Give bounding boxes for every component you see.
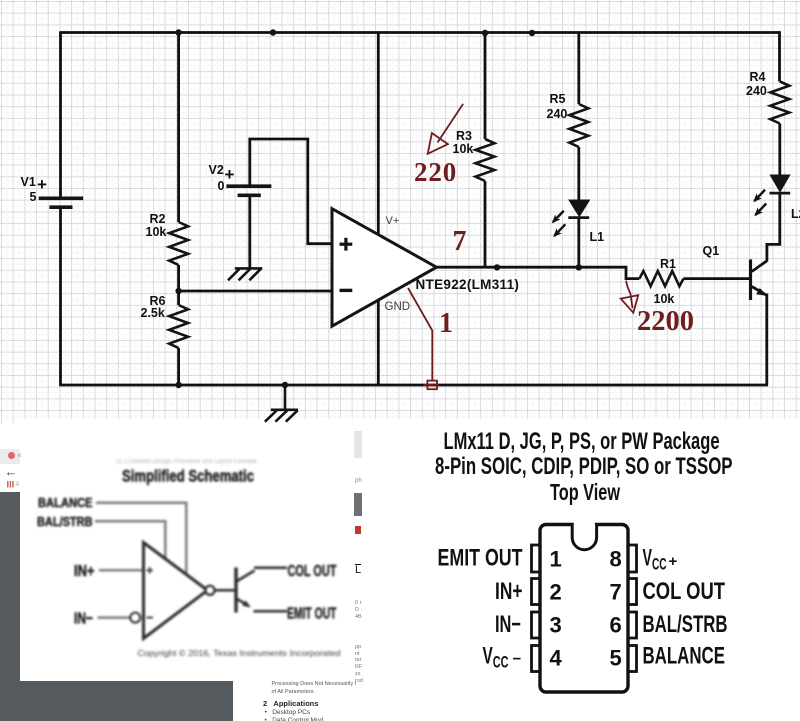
label V2 value 0 <box>218 180 225 193</box>
TI balance lead <box>96 503 186 574</box>
wire left rail upper <box>59 31 62 198</box>
svg-text:COL OUT: COL OUT <box>643 578 726 605</box>
tab favicon red circle <box>8 452 15 459</box>
TI in- bubble <box>130 613 140 623</box>
wire Q1 emitter to bottom rail <box>765 294 768 386</box>
label L1 <box>590 231 605 244</box>
node dot (top rail / R3) <box>482 30 488 36</box>
bottom tiny text processing <box>272 682 357 688</box>
scrollbar strip block 1 <box>354 431 362 458</box>
left datasheet window background <box>0 424 357 721</box>
op-amp U1 NTE922(LM311) <box>332 209 437 327</box>
label R2 value <box>146 226 167 239</box>
annotation arrow for 220 <box>428 104 463 154</box>
label V1 value 5 <box>30 191 37 204</box>
node dot (bottom rail / ground) <box>282 382 288 388</box>
annotation arrow for 2200 <box>621 281 639 313</box>
label L2 <box>791 208 800 221</box>
label R1 value <box>654 293 675 306</box>
TI plus input mark <box>147 567 154 574</box>
red apps icon <box>7 481 14 488</box>
svg-text:BAL/STRB: BAL/STRB <box>643 611 728 638</box>
node dot (top rail stray) <box>270 29 276 35</box>
svg-text:7: 7 <box>610 580 622 605</box>
ground (bottom) <box>265 410 298 422</box>
LED L2 light arrows <box>754 190 766 215</box>
scrollbar tiny text ph <box>355 478 362 484</box>
svg-text:VCC: VCC <box>483 643 509 672</box>
wire V2 plus to bend <box>250 139 332 244</box>
svg-text:IN+: IN+ <box>74 563 95 580</box>
annotation 220 <box>414 159 457 186</box>
annotation 7 <box>453 228 467 256</box>
annotation 1 <box>439 310 453 338</box>
wire R6 to bottom rail <box>177 348 180 385</box>
node dot (bottom rail / R6) <box>175 382 181 388</box>
label NTE922(LM311) <box>416 278 520 292</box>
battery V1 <box>39 198 83 207</box>
wire left rail lower <box>59 208 62 385</box>
strip tiny text column 2 <box>355 644 363 684</box>
label V1 plus sign <box>37 176 47 193</box>
pin stub 5 <box>627 646 637 672</box>
wire top rail <box>61 31 780 34</box>
svg-text:BALANCE: BALANCE <box>643 643 726 670</box>
TI transistor emitter with arrow <box>237 599 249 606</box>
TI in+ lead <box>99 569 144 572</box>
TI collector lead <box>254 567 287 570</box>
wire R3 to output node <box>484 181 487 267</box>
label V2 plus sign <box>225 166 235 183</box>
scrollbar thumb dark <box>354 493 362 516</box>
dark bottom panel <box>0 681 233 721</box>
resistor R6 <box>169 305 188 348</box>
annotation probe leader for pin 1 <box>408 288 439 389</box>
resistor R5 <box>569 104 588 147</box>
TI simplified schematic figure <box>0 420 357 721</box>
label R2 <box>150 213 166 226</box>
svg-text:LMx11 D, JG, P, PS, or PW Pack: LMx11 D, JG, P, PS, or PW Package <box>444 428 720 455</box>
svg-text:5: 5 <box>610 646 622 671</box>
transistor Q1 emitter arrowhead <box>757 289 766 295</box>
annotation 2200 <box>637 308 694 337</box>
wire output rail <box>437 267 640 278</box>
back arrow <box>5 465 18 478</box>
TI in- lead <box>98 616 130 619</box>
browser tab bar fragment <box>0 449 20 464</box>
op-amp plus input symbol <box>340 238 353 251</box>
pin stub 8 <box>627 545 637 572</box>
resistor R1 <box>639 271 683 286</box>
label Q1 <box>703 245 720 258</box>
wire LED L1 to output node <box>577 218 580 267</box>
IC notch erase <box>574 522 595 528</box>
ground (V2) <box>228 268 262 280</box>
svg-text:IN+: IN+ <box>495 578 523 605</box>
tab close x <box>17 452 22 460</box>
label V2 <box>209 164 224 177</box>
wire R4 branch top <box>778 31 781 81</box>
svg-text:BAL/STRB: BAL/STRB <box>37 514 93 529</box>
strip boxed L <box>355 564 361 576</box>
LED L1 light arrows <box>553 211 565 236</box>
TI output lead <box>215 589 236 592</box>
pin stub 6 <box>627 612 637 638</box>
LED L2 <box>770 175 791 193</box>
transistor Q1 <box>751 259 767 300</box>
label V1 <box>21 176 36 189</box>
pin stub 3 <box>532 612 542 638</box>
svg-text:Simplified Schematic: Simplified Schematic <box>122 467 254 486</box>
TI bal/strb lead <box>95 521 165 559</box>
svg-text:+: + <box>669 553 678 570</box>
pin stub 1 <box>532 545 542 572</box>
svg-text:EMIT OUT: EMIT OUT <box>438 545 523 572</box>
TI emitter lead <box>254 610 288 613</box>
LED L1 <box>568 200 589 218</box>
wire R5 to LED L1 <box>577 147 580 201</box>
svg-text:BALANCE: BALANCE <box>38 495 93 510</box>
svg-text:VCC: VCC <box>643 545 667 574</box>
node dot (output node) <box>494 264 500 270</box>
TI output bubble <box>205 586 214 595</box>
scrollbar red mark <box>355 526 361 534</box>
label GND pin <box>385 302 411 314</box>
svg-text:4: 4 <box>550 646 563 671</box>
bottom tiny text parameters <box>272 690 315 696</box>
bottom bullet desktop pcs <box>265 710 311 717</box>
wire R3 branch top <box>484 33 487 140</box>
IC body <box>540 525 628 693</box>
TI transistor collector <box>237 571 254 582</box>
pin stub 2 <box>532 579 542 605</box>
wire ground stub (bottom rail) <box>284 385 287 410</box>
bottom heading applications <box>263 700 318 708</box>
label R5 <box>550 93 566 106</box>
label R6 value <box>141 307 165 320</box>
resistor R4 <box>770 82 789 124</box>
wire bottom rail <box>59 384 768 387</box>
label R4 <box>750 71 766 84</box>
wire R2 branch top <box>177 33 180 223</box>
dark sidebar <box>0 492 20 721</box>
label R6 <box>150 295 166 308</box>
svg-text:−: − <box>513 651 522 668</box>
TI minus input mark <box>147 617 154 619</box>
node dot (top rail stray 2) <box>529 30 535 36</box>
svg-text:COL OUT: COL OUT <box>288 563 337 580</box>
svg-text:6: 6 <box>610 613 622 638</box>
svg-text:1: 1 <box>550 547 562 572</box>
bottom bullet partial <box>265 718 331 721</box>
op-amp minus input symbol <box>340 289 353 292</box>
svg-text:IN−: IN− <box>74 611 93 628</box>
label R4 value <box>746 85 767 98</box>
label R3 <box>456 130 472 143</box>
IC notch <box>572 525 596 550</box>
svg-text:Top View: Top View <box>550 479 620 505</box>
wire R4 to LED L2 <box>778 124 781 176</box>
svg-text:8: 8 <box>610 547 622 572</box>
label V+ pin <box>386 216 400 227</box>
svg-text:8-Pin SOIC, CDIP, PDIP, SO or: 8-Pin SOIC, CDIP, PDIP, SO or TSSOP <box>435 453 733 480</box>
node dot (output / L1) <box>576 264 582 270</box>
wire R2 to R6 <box>177 265 180 305</box>
faint header remnant above title <box>116 459 257 465</box>
label R1 <box>660 258 676 271</box>
svg-text:3: 3 <box>550 613 562 638</box>
node dot (top rail / R2) <box>175 29 181 35</box>
wire V2 minus to ground <box>248 196 251 268</box>
TI op-amp triangle <box>144 543 208 639</box>
right pinout figure background <box>357 419 800 721</box>
label R5 value <box>547 108 568 121</box>
svg-text:Copyright © 2016, Texas Instru: Copyright © 2016, Texas Instruments Inco… <box>138 648 341 658</box>
wire LED L2 to Q1 collector <box>767 195 780 262</box>
resistor R3 <box>476 139 495 181</box>
label R3 value <box>453 143 474 156</box>
strip tiny text column 1 <box>355 600 362 621</box>
svg-text:2: 2 <box>550 580 562 605</box>
wire op-amp GND pin <box>377 300 380 385</box>
battery V2 <box>226 186 271 195</box>
pin stub 7 <box>627 579 637 605</box>
pin stub 4 <box>532 646 542 672</box>
resistor R2 <box>169 222 188 265</box>
wire op-amp V+ supply <box>377 33 380 235</box>
TI transistor base bar <box>234 568 237 613</box>
wire R1 to Q1 base <box>684 277 750 280</box>
svg-text:IN−: IN− <box>495 611 521 638</box>
grid background <box>0 0 800 419</box>
svg-text:EMIT OUT: EMIT OUT <box>287 606 337 623</box>
wire R5 branch top <box>577 33 580 105</box>
node dot (R2/R6 junction) <box>175 288 181 294</box>
wire inverting input <box>179 290 332 293</box>
tiny A mark <box>16 482 20 488</box>
